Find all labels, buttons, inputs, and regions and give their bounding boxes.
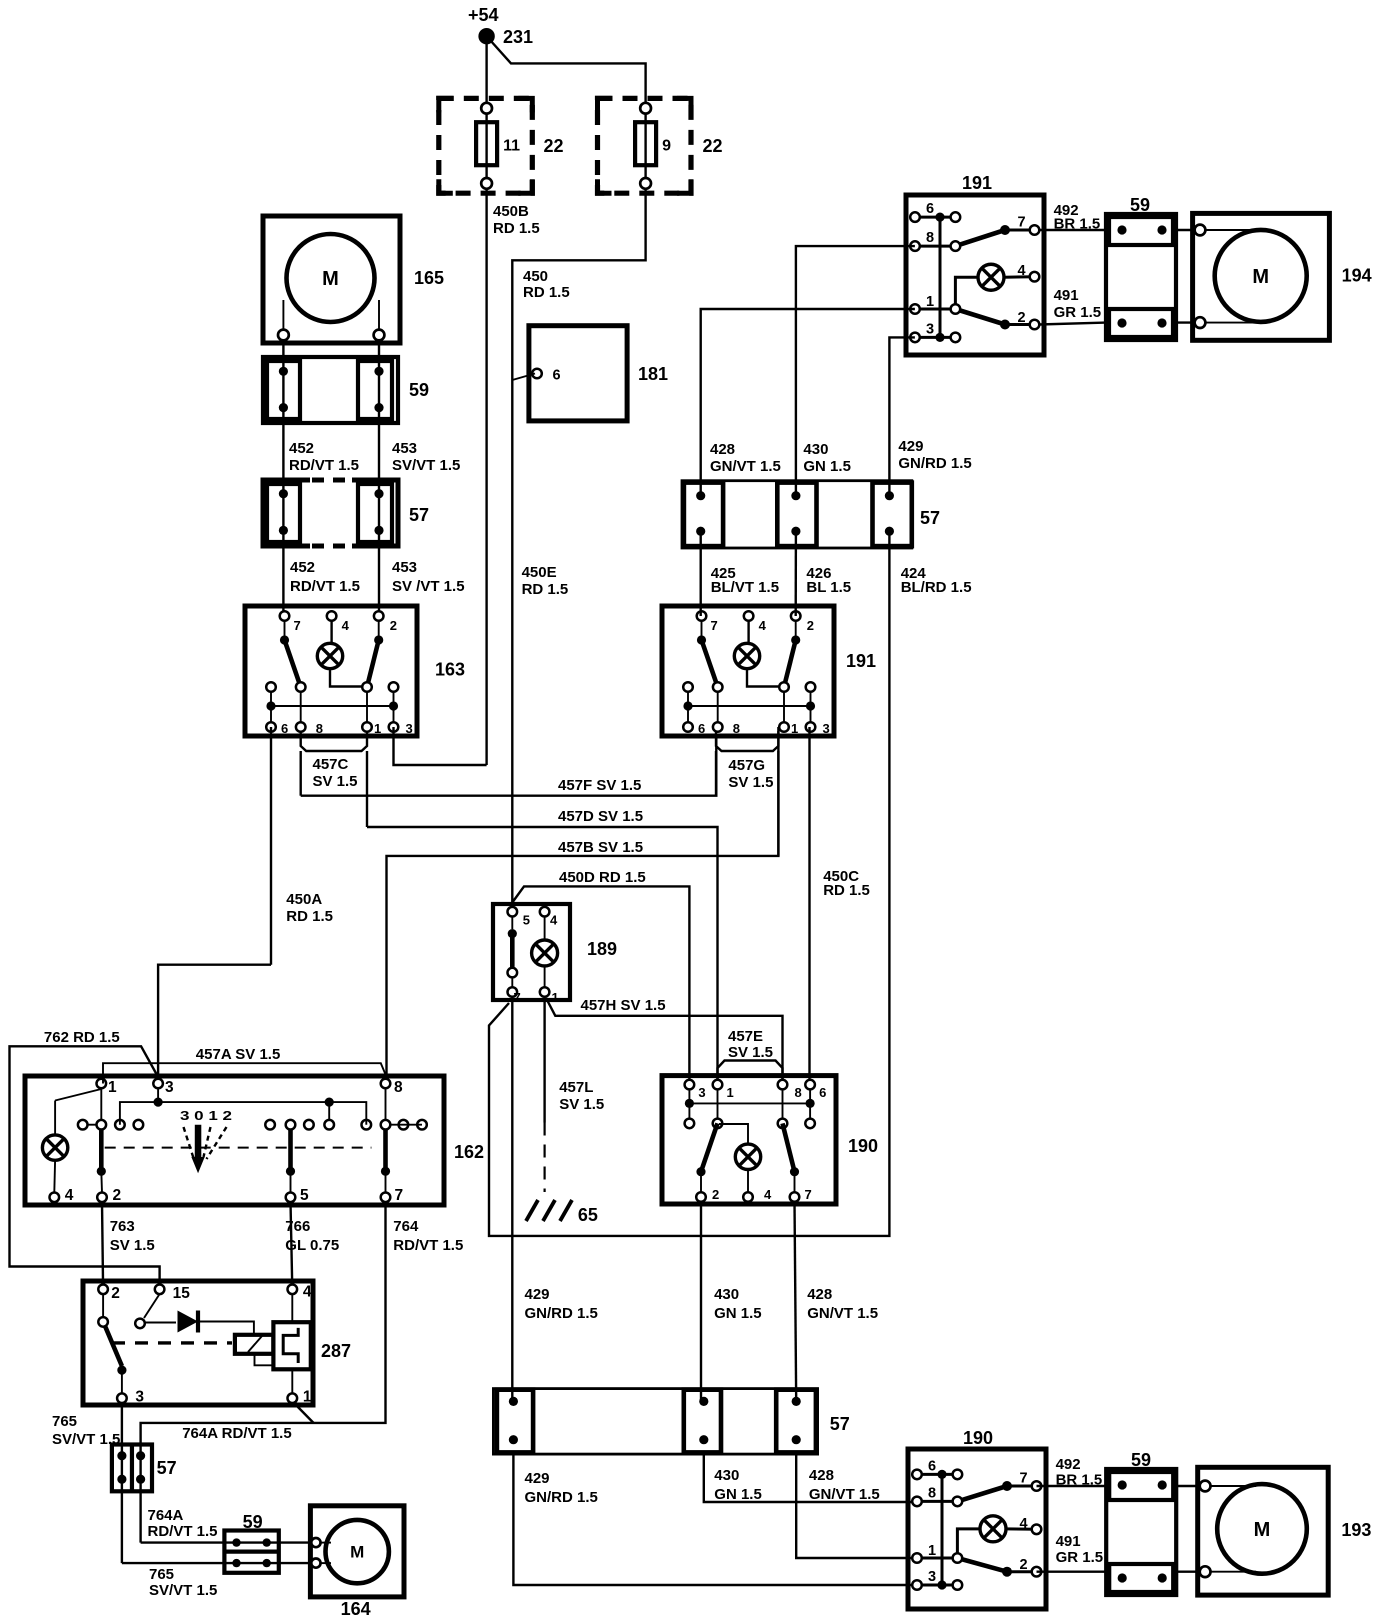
svg-text:7: 7 bbox=[711, 618, 718, 633]
svg-text:189: 189 bbox=[587, 939, 617, 959]
svg-text:59: 59 bbox=[243, 1512, 263, 1532]
svg-text:8: 8 bbox=[928, 1485, 936, 1501]
svg-text:457A SV 1.5: 457A SV 1.5 bbox=[196, 1046, 280, 1063]
svg-text:2: 2 bbox=[111, 1285, 120, 1302]
svg-text:+54: +54 bbox=[468, 5, 499, 25]
svg-text:65: 65 bbox=[578, 1205, 598, 1225]
svg-text:457F SV 1.5: 457F SV 1.5 bbox=[558, 777, 641, 794]
svg-text:SV 1.5: SV 1.5 bbox=[313, 773, 358, 790]
svg-text:450: 450 bbox=[523, 268, 548, 285]
svg-text:429: 429 bbox=[525, 1470, 550, 1487]
svg-text:452: 452 bbox=[289, 440, 314, 457]
svg-text:6: 6 bbox=[698, 721, 705, 736]
svg-text:SV 1.5: SV 1.5 bbox=[110, 1237, 155, 1254]
svg-text:450B: 450B bbox=[493, 203, 529, 220]
svg-text:2: 2 bbox=[1018, 310, 1026, 326]
svg-text:SV/VT 1.5: SV/VT 1.5 bbox=[149, 1582, 217, 1599]
svg-text:59: 59 bbox=[1130, 195, 1150, 215]
svg-text:450D RD 1.5: 450D RD 1.5 bbox=[559, 869, 646, 886]
svg-text:M: M bbox=[1252, 266, 1269, 288]
svg-text:22: 22 bbox=[703, 136, 723, 156]
svg-text:3: 3 bbox=[823, 721, 830, 736]
svg-text:457L: 457L bbox=[559, 1079, 593, 1096]
svg-text:4: 4 bbox=[65, 1187, 74, 1204]
svg-text:765: 765 bbox=[149, 1566, 174, 1583]
svg-text:450E: 450E bbox=[522, 564, 557, 581]
svg-text:57: 57 bbox=[920, 508, 940, 528]
svg-text:457E: 457E bbox=[728, 1028, 763, 1045]
svg-text:RD/VT 1.5: RD/VT 1.5 bbox=[289, 457, 359, 474]
svg-text:SV 1.5: SV 1.5 bbox=[728, 774, 773, 791]
svg-text:RD/VT 1.5: RD/VT 1.5 bbox=[148, 1523, 218, 1540]
svg-text:1: 1 bbox=[108, 1079, 117, 1096]
svg-text:430: 430 bbox=[714, 1286, 739, 1303]
svg-text:RD 1.5: RD 1.5 bbox=[522, 581, 569, 598]
svg-text:GN 1.5: GN 1.5 bbox=[714, 1486, 762, 1503]
svg-text:BL/VT 1.5: BL/VT 1.5 bbox=[711, 579, 779, 596]
svg-text:GN/VT 1.5: GN/VT 1.5 bbox=[809, 1486, 880, 1503]
svg-text:181: 181 bbox=[638, 364, 668, 384]
svg-text:194: 194 bbox=[1342, 266, 1372, 286]
svg-text:GN/RD 1.5: GN/RD 1.5 bbox=[525, 1305, 598, 1322]
svg-text:2: 2 bbox=[390, 618, 397, 633]
svg-text:57: 57 bbox=[830, 1414, 850, 1434]
svg-text:428: 428 bbox=[809, 1467, 834, 1484]
svg-text:GL 0.75: GL 0.75 bbox=[285, 1237, 339, 1254]
svg-text:RD 1.5: RD 1.5 bbox=[286, 908, 333, 925]
svg-text:4: 4 bbox=[342, 618, 350, 633]
svg-text:59: 59 bbox=[1131, 1450, 1151, 1470]
svg-text:4: 4 bbox=[764, 1187, 772, 1202]
svg-text:4: 4 bbox=[1018, 263, 1026, 279]
svg-text:6: 6 bbox=[926, 201, 934, 217]
svg-text:GN/VT 1.5: GN/VT 1.5 bbox=[807, 1305, 878, 1322]
svg-text:763: 763 bbox=[110, 1218, 135, 1235]
svg-text:457C: 457C bbox=[313, 756, 349, 773]
svg-text:8: 8 bbox=[795, 1085, 802, 1100]
svg-text:457B SV 1.5: 457B SV 1.5 bbox=[558, 839, 643, 856]
svg-text:429: 429 bbox=[525, 1286, 550, 1303]
svg-text:RD/VT 1.5: RD/VT 1.5 bbox=[393, 1237, 463, 1254]
svg-text:7: 7 bbox=[805, 1187, 812, 1202]
svg-text:6: 6 bbox=[553, 368, 561, 384]
svg-text:5: 5 bbox=[523, 913, 530, 928]
svg-text:GR 1.5: GR 1.5 bbox=[1054, 304, 1102, 321]
svg-text:2: 2 bbox=[1020, 1557, 1028, 1573]
svg-text:428: 428 bbox=[807, 1286, 832, 1303]
svg-text:M: M bbox=[1254, 1519, 1271, 1541]
svg-text:3: 3 bbox=[165, 1079, 174, 1096]
svg-text:7: 7 bbox=[395, 1187, 404, 1204]
svg-text:59: 59 bbox=[409, 380, 429, 400]
svg-text:3: 3 bbox=[698, 1085, 705, 1100]
svg-text:452: 452 bbox=[290, 559, 315, 576]
svg-text:GN/RD 1.5: GN/RD 1.5 bbox=[898, 455, 971, 472]
svg-text:4: 4 bbox=[550, 913, 558, 928]
svg-text:491: 491 bbox=[1056, 1533, 1081, 1550]
svg-text:SV 1.5: SV 1.5 bbox=[559, 1096, 604, 1113]
svg-text:453: 453 bbox=[392, 559, 417, 576]
svg-text:3: 3 bbox=[135, 1389, 144, 1406]
svg-text:766: 766 bbox=[285, 1218, 310, 1235]
svg-text:RD/VT 1.5: RD/VT 1.5 bbox=[290, 578, 360, 595]
svg-text:BL 1.5: BL 1.5 bbox=[806, 579, 851, 596]
svg-text:193: 193 bbox=[1341, 1520, 1371, 1540]
svg-text:492: 492 bbox=[1056, 1456, 1081, 1473]
svg-text:RD 1.5: RD 1.5 bbox=[523, 284, 570, 301]
svg-text:191: 191 bbox=[846, 651, 876, 671]
svg-text:SV /VT 1.5: SV /VT 1.5 bbox=[392, 578, 465, 595]
svg-text:57: 57 bbox=[157, 1458, 177, 1478]
svg-text:428: 428 bbox=[710, 441, 735, 458]
svg-text:231: 231 bbox=[503, 27, 533, 47]
svg-text:165: 165 bbox=[414, 268, 444, 288]
svg-text:6: 6 bbox=[928, 1458, 936, 1474]
svg-text:4: 4 bbox=[1020, 1516, 1028, 1532]
svg-text:RD 1.5: RD 1.5 bbox=[823, 882, 870, 899]
svg-text:6: 6 bbox=[819, 1085, 826, 1100]
svg-text:8: 8 bbox=[926, 230, 934, 246]
svg-text:3 0 1 2: 3 0 1 2 bbox=[180, 1108, 232, 1123]
svg-text:3: 3 bbox=[928, 1569, 936, 1585]
svg-text:1: 1 bbox=[727, 1085, 734, 1100]
svg-text:GR 1.5: GR 1.5 bbox=[1056, 1549, 1104, 1566]
svg-text:7: 7 bbox=[1018, 215, 1026, 231]
svg-text:M: M bbox=[322, 268, 339, 290]
svg-text:9: 9 bbox=[662, 138, 671, 155]
svg-text:1: 1 bbox=[928, 1543, 936, 1559]
svg-text:190: 190 bbox=[963, 1428, 993, 1448]
svg-text:457D SV 1.5: 457D SV 1.5 bbox=[558, 808, 643, 825]
svg-text:764: 764 bbox=[393, 1218, 419, 1235]
svg-text:BR 1.5: BR 1.5 bbox=[1056, 1472, 1103, 1489]
svg-text:762 RD 1.5: 762 RD 1.5 bbox=[44, 1029, 120, 1046]
svg-text:2: 2 bbox=[712, 1187, 719, 1202]
svg-text:7: 7 bbox=[294, 618, 301, 633]
svg-text:22: 22 bbox=[544, 136, 564, 156]
svg-text:764A: 764A bbox=[148, 1507, 184, 1524]
svg-text:8: 8 bbox=[316, 721, 323, 736]
svg-text:SV 1.5: SV 1.5 bbox=[728, 1044, 773, 1061]
svg-text:6: 6 bbox=[281, 721, 288, 736]
svg-text:2: 2 bbox=[807, 618, 814, 633]
svg-text:4: 4 bbox=[303, 1284, 312, 1301]
svg-text:764A RD/VT 1.5: 764A RD/VT 1.5 bbox=[182, 1425, 292, 1442]
svg-text:450A: 450A bbox=[286, 891, 322, 908]
svg-text:GN/VT 1.5: GN/VT 1.5 bbox=[710, 458, 781, 475]
svg-text:GN 1.5: GN 1.5 bbox=[714, 1305, 762, 1322]
svg-text:1: 1 bbox=[552, 990, 559, 1005]
svg-text:491: 491 bbox=[1054, 287, 1079, 304]
svg-text:287: 287 bbox=[321, 1341, 351, 1361]
svg-text:3: 3 bbox=[926, 321, 934, 337]
svg-text:5: 5 bbox=[300, 1187, 309, 1204]
svg-text:3: 3 bbox=[406, 721, 413, 736]
svg-text:429: 429 bbox=[898, 438, 923, 455]
svg-text:7: 7 bbox=[1020, 1471, 1028, 1487]
svg-text:11: 11 bbox=[503, 138, 520, 155]
svg-text:457G: 457G bbox=[728, 757, 765, 774]
svg-text:SV/VT 1.5: SV/VT 1.5 bbox=[392, 457, 460, 474]
svg-text:430: 430 bbox=[714, 1467, 739, 1484]
svg-text:1: 1 bbox=[303, 1389, 312, 1406]
svg-text:GN 1.5: GN 1.5 bbox=[803, 458, 851, 475]
svg-text:430: 430 bbox=[803, 441, 828, 458]
svg-text:1: 1 bbox=[926, 294, 934, 310]
svg-text:M: M bbox=[350, 1543, 364, 1562]
svg-text:BL/RD 1.5: BL/RD 1.5 bbox=[901, 579, 972, 596]
svg-text:765: 765 bbox=[52, 1413, 77, 1430]
svg-text:BR 1.5: BR 1.5 bbox=[1054, 216, 1101, 233]
svg-text:RD 1.5: RD 1.5 bbox=[493, 220, 540, 237]
svg-text:1: 1 bbox=[791, 721, 798, 736]
svg-text:163: 163 bbox=[435, 660, 465, 680]
svg-text:191: 191 bbox=[962, 173, 992, 193]
svg-text:162: 162 bbox=[454, 1142, 484, 1162]
svg-text:453: 453 bbox=[392, 440, 417, 457]
svg-text:4: 4 bbox=[759, 618, 767, 633]
svg-text:457H SV 1.5: 457H SV 1.5 bbox=[581, 997, 666, 1014]
svg-text:8: 8 bbox=[733, 721, 740, 736]
svg-text:57: 57 bbox=[409, 505, 429, 525]
svg-text:7: 7 bbox=[514, 990, 521, 1005]
svg-text:8: 8 bbox=[394, 1079, 403, 1096]
svg-text:1: 1 bbox=[374, 721, 381, 736]
svg-text:15: 15 bbox=[173, 1285, 191, 1302]
svg-text:GN/RD 1.5: GN/RD 1.5 bbox=[525, 1489, 598, 1506]
svg-text:190: 190 bbox=[848, 1136, 878, 1156]
svg-text:2: 2 bbox=[113, 1187, 122, 1204]
svg-text:164: 164 bbox=[341, 1599, 371, 1616]
